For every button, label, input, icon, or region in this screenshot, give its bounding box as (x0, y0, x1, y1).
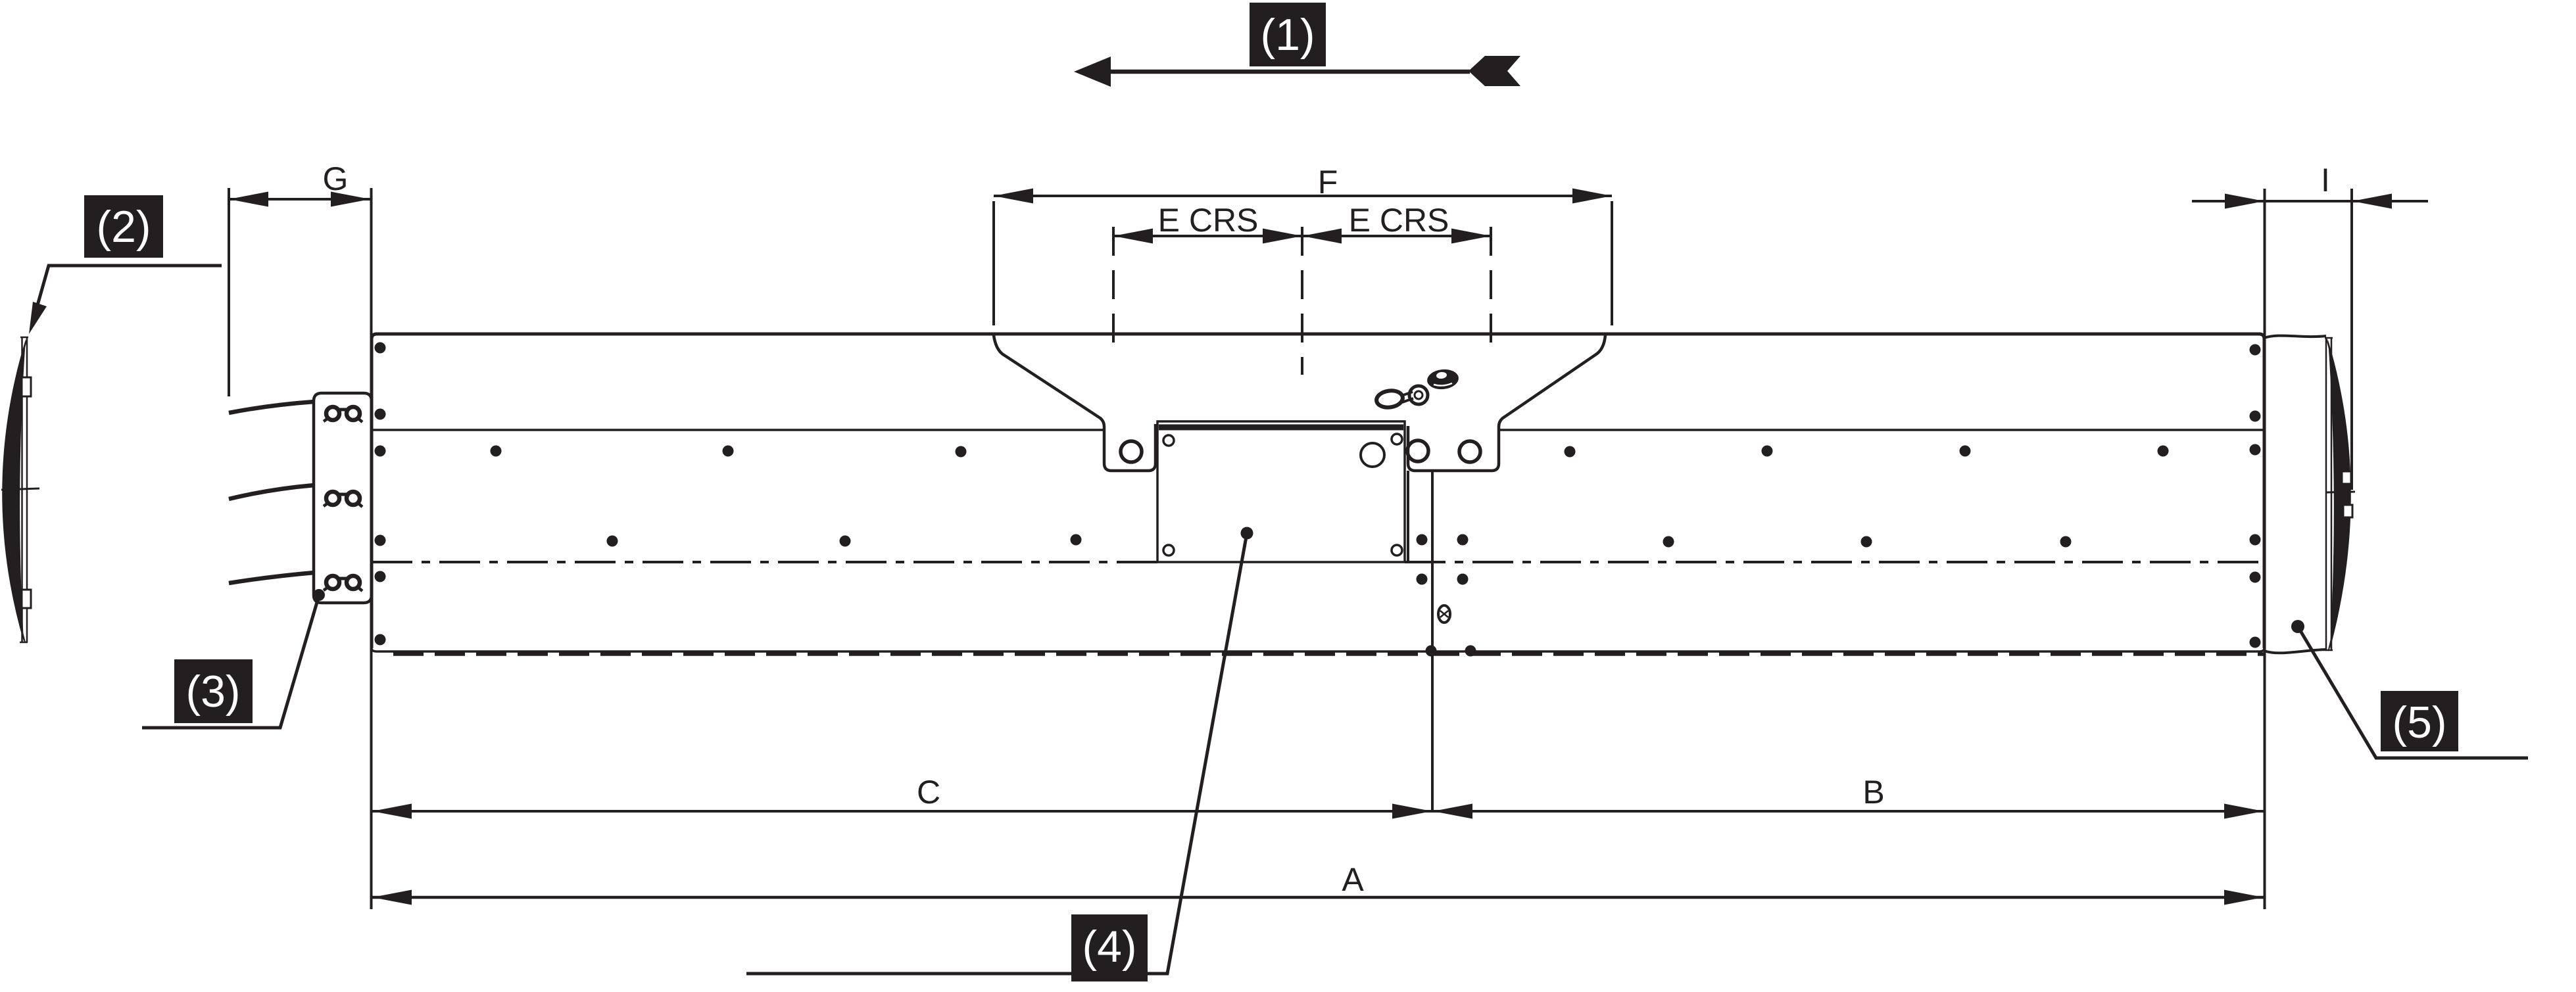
left discharge blade (1, 337, 39, 642)
leader for (5) (2291, 620, 2528, 758)
leader for (2) (29, 266, 222, 334)
bracket left foot hole (1121, 441, 1142, 462)
svg-text:(4): (4) (1082, 922, 1136, 972)
dimension E CRS right (1302, 202, 1491, 375)
plate large hole (1361, 443, 1384, 467)
hex nut (1426, 368, 1460, 391)
seam rivets (1417, 534, 1476, 657)
svg-text:(1): (1) (1260, 10, 1315, 60)
svg-text:I: I (2321, 162, 2330, 199)
seam grommet (1438, 605, 1450, 623)
leader for (3) (142, 589, 325, 728)
body centerline dash-dot (right segment) (1405, 561, 2264, 563)
eye bolt (1375, 386, 1428, 409)
svg-text:G: G (323, 160, 349, 197)
svg-text:E CRS: E CRS (1158, 202, 1259, 239)
svg-text:B: B (1862, 774, 1884, 811)
bracket right foot hole 2 (1459, 441, 1480, 462)
leader for (4) (746, 527, 1253, 974)
dimension B (1432, 774, 2264, 819)
airflow direction arrow (1074, 56, 1520, 87)
dimension C (372, 774, 1432, 819)
dimension E CRS left (1113, 202, 1302, 355)
callout label (1) (1250, 3, 1326, 66)
dimension A (372, 861, 2264, 905)
right vertical extension line (body right edge extended) (2264, 189, 2266, 909)
flange slot 1 (324, 407, 362, 422)
plate corner screw bottom-right (1392, 545, 1402, 555)
dimension G (229, 160, 370, 396)
lower rivet row (607, 534, 2072, 548)
callout label (5) (2381, 691, 2458, 751)
plate corner screw bottom-left (1163, 545, 1174, 555)
plate corner screw top-left (1163, 435, 1174, 446)
conduit cable bottom (229, 573, 314, 583)
flange slot 2 (324, 492, 362, 507)
callout label (4) (1071, 914, 1148, 981)
svg-text:C: C (917, 774, 940, 811)
callout label (3) (174, 659, 253, 723)
section seam vertical line (1431, 471, 1434, 811)
svg-text:(5): (5) (2392, 697, 2446, 747)
callout label (2) (84, 195, 163, 258)
body inner horizontal line (right segment) (1499, 429, 2264, 431)
svg-text:E CRS: E CRS (1349, 202, 1449, 239)
body inner horizontal line (left segment) (372, 429, 1104, 431)
right edge rivets (2250, 344, 2261, 648)
flange slot 3 (324, 576, 362, 591)
svg-text:F: F (1318, 164, 1338, 201)
center mounting bracket (994, 335, 1605, 471)
junction box cover plate (4) (1157, 421, 1405, 562)
right discharge blade (2325, 338, 2355, 650)
connector squiggle bottom right (2264, 650, 2326, 653)
left edge rivets (375, 342, 386, 646)
upper rivet row (491, 446, 2169, 458)
bracket right foot hole 1 (1407, 440, 1428, 461)
left vertical extension line (body left edge extended) (370, 188, 373, 909)
svg-text:A: A (1342, 861, 1364, 898)
dimension I (2192, 162, 2428, 490)
body centerline dash-dot (left segment) (372, 561, 1157, 563)
dimension F (994, 164, 1612, 325)
connector squiggle top right (2264, 336, 2326, 338)
plate corner screw top-right (1392, 434, 1402, 444)
svg-text:(2): (2) (96, 202, 151, 252)
unit body outline (372, 334, 2264, 651)
conduit cable middle (229, 485, 314, 499)
seam doubler strip left edge (1407, 471, 1409, 562)
conduit cable top (229, 402, 314, 413)
body bottom dashed lip (393, 652, 2264, 656)
svg-text:(3): (3) (185, 667, 240, 717)
inlet flange plate (314, 393, 372, 603)
